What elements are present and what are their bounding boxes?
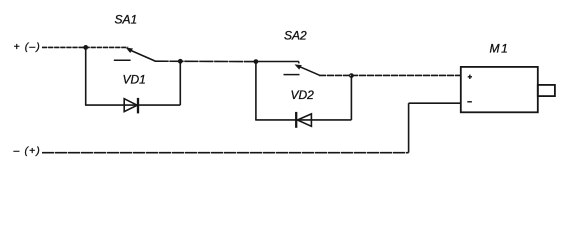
wire: + rail to SA1 fixed contact (scan underlay)	[42, 46, 128, 48]
motor + terminal mark	[468, 75, 472, 79]
diode VD1 triangle (anode left, pointing right)	[124, 99, 137, 112]
wire: SA1 blade to node C	[155, 60, 256, 62]
wire: + rail to SA1 fixed contact	[42, 46, 128, 48]
wire: VD2 anode up to node D	[350, 76, 352, 120]
junction node A (VD1 anode tap)	[83, 45, 88, 50]
wire: VD1 branch bottom	[85, 104, 180, 106]
svg-text:SA2: SA2	[284, 28, 307, 42]
switch SA1 fixed contact dash	[114, 59, 131, 61]
svg-text:M1: M1	[490, 42, 510, 56]
wire: corner down to - rail	[408, 103, 410, 153]
junction node D (SA2 output / VD2 anode)	[349, 73, 354, 78]
diode VD2 triangle (anode right, pointing left)	[297, 114, 311, 126]
switch SA1 blade arrowhead	[126, 48, 133, 53]
wire: motor - terminal to corner	[409, 102, 461, 104]
svg-text:– (+): – (+)	[13, 145, 41, 157]
svg-text:VD2: VD2	[291, 88, 315, 102]
motor M1 body	[461, 67, 538, 112]
junction node C (VD2 cathode tap)	[254, 59, 259, 64]
switch SA2 fixed contact dash	[284, 74, 300, 76]
wire: VD2 branch bottom	[255, 119, 351, 121]
wire: VD1 cathode up to node B	[179, 61, 181, 105]
motor - terminal mark	[467, 101, 472, 103]
svg-text:+ (–): + (–)	[14, 41, 41, 53]
wire: SA2 blade to motor + terminal (scan underlay)	[319, 74, 461, 76]
wire: node C down to VD2 branch	[255, 62, 257, 120]
switch SA2 blade arrowhead	[295, 64, 302, 69]
svg-text:VD1: VD1	[123, 73, 146, 87]
switch SA2 fixed contact tick	[298, 62, 300, 64]
wire: node C to SA2 fixed contact	[256, 61, 299, 63]
wire: SA2 blade to motor + terminal	[319, 74, 461, 76]
wire: node A down to VD1 branch	[85, 47, 87, 105]
wire: - rail (scan underlay)	[42, 152, 409, 154]
switch SA1 moving blade	[129, 50, 155, 61]
wire: SA1 blade to node C (scan underlay)	[155, 60, 256, 62]
switch SA2 moving blade	[300, 67, 319, 75]
junction node B (SA1 output / VD1 cathode)	[178, 59, 183, 64]
wire: - rail	[42, 152, 409, 154]
motor M1 shaft	[538, 85, 555, 96]
diode VD2 cathode bar	[295, 112, 297, 128]
svg-text:SA1: SA1	[115, 13, 138, 27]
diode VD1 cathode bar	[137, 98, 139, 114]
